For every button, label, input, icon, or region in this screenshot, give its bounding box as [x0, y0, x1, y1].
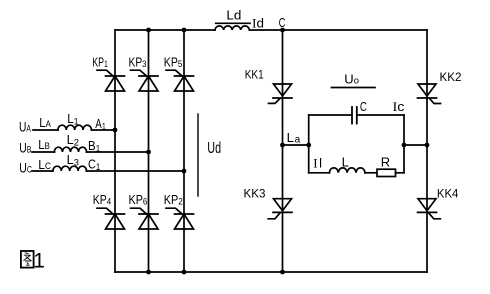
- svg-text:Id: Id: [252, 16, 264, 31]
- phase input UC with inductor L3: [19, 152, 184, 176]
- thyristor KP6: [129, 193, 159, 229]
- junction node A1: [113, 128, 118, 133]
- wire node line left: [283, 144, 309, 146]
- svg-text:L2: L2: [67, 132, 79, 149]
- svg-text:La: La: [287, 130, 301, 146]
- svg-text:LA: LA: [39, 115, 51, 130]
- thyristor KP1: [92, 56, 124, 92]
- svg-text:Il: Il: [313, 156, 322, 171]
- wire KP column 3: [183, 30, 185, 272]
- voltage Ud marker line: [198, 114, 221, 196]
- junction node C1: [182, 169, 187, 174]
- wire top rail right segment: [249, 29, 427, 31]
- thyristor KK2: [418, 70, 462, 104]
- junction loop left: [306, 143, 311, 148]
- capacitor C: [309, 99, 404, 124]
- thyristor KP5: [164, 56, 194, 92]
- svg-text:L1: L1: [67, 111, 78, 128]
- junction right column node: [425, 143, 430, 148]
- thyristor KK4: [418, 186, 459, 219]
- wire node line right: [404, 144, 427, 146]
- svg-text:KK3: KK3: [244, 187, 266, 201]
- svg-text:UC: UC: [19, 161, 32, 176]
- svg-text:B1: B1: [88, 138, 100, 155]
- svg-text:UA: UA: [19, 120, 31, 135]
- svg-text:KK4: KK4: [437, 186, 459, 200]
- inductor L load: [309, 154, 365, 172]
- wire loop right vertical: [403, 115, 405, 173]
- thyristor KK1: [245, 68, 292, 104]
- svg-text:C: C: [279, 15, 286, 30]
- junction bottom rail col3: [182, 270, 187, 275]
- wire KP column 2: [148, 30, 150, 272]
- wire KP column 1: [114, 30, 116, 272]
- junction bottom rail col2: [146, 270, 151, 275]
- svg-text:KP3: KP3: [129, 56, 147, 71]
- thyristor KK3: [244, 187, 293, 219]
- junction top rail col3: [182, 28, 187, 33]
- svg-text:C1: C1: [88, 157, 100, 174]
- svg-text:Uo: Uo: [344, 72, 359, 87]
- svg-text:KP6: KP6: [129, 193, 148, 208]
- junction top rail col2: [146, 28, 151, 33]
- svg-text:KP4: KP4: [93, 193, 111, 208]
- wire KK right column: [426, 30, 428, 272]
- svg-text:C: C: [360, 99, 367, 114]
- svg-text:A1: A1: [95, 116, 106, 133]
- svg-text:KK1: KK1: [245, 68, 264, 82]
- wire bottom rail: [115, 271, 427, 273]
- phase input UB with inductor L2: [19, 132, 148, 156]
- svg-text:KP2: KP2: [164, 193, 183, 208]
- svg-text:UB: UB: [19, 141, 31, 156]
- inductor Ld: [215, 7, 250, 30]
- node C: [279, 15, 286, 32]
- junction node B1: [146, 150, 151, 155]
- caption 图1: [21, 250, 45, 273]
- svg-text:Ic: Ic: [393, 99, 406, 114]
- svg-text:L: L: [342, 154, 349, 169]
- svg-text:L3: L3: [67, 152, 79, 169]
- svg-text:LC: LC: [38, 157, 51, 172]
- thyristor KP2: [164, 193, 194, 229]
- svg-text:LB: LB: [38, 137, 50, 152]
- node La: [280, 130, 301, 147]
- svg-text:R: R: [381, 154, 390, 169]
- svg-text:KP1: KP1: [92, 56, 108, 71]
- svg-text:Ud: Ud: [207, 140, 221, 157]
- junction loop right: [402, 143, 407, 148]
- wire top rail left segment: [115, 29, 215, 31]
- label Uo with underline: [331, 72, 375, 88]
- thyristor KP4: [93, 193, 125, 229]
- resistor R: [365, 154, 404, 176]
- wire loop left vertical: [308, 115, 310, 173]
- svg-text:KK2: KK2: [440, 70, 462, 84]
- wire KK left column: [282, 30, 284, 272]
- svg-text:1: 1: [33, 250, 45, 273]
- svg-text:Ld: Ld: [226, 7, 241, 22]
- junction bottom rail KK column: [280, 270, 285, 275]
- svg-text:KP5: KP5: [164, 56, 183, 71]
- thyristor KP3: [129, 56, 159, 92]
- phase input UA with inductor L1: [19, 111, 115, 135]
